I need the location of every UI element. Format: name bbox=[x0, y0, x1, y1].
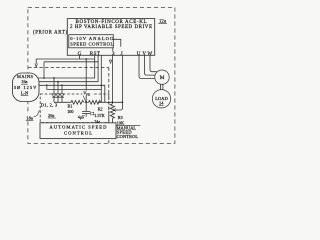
svg-text:4μF: 4μF bbox=[78, 114, 85, 119]
wire: terminal J riser down to wiper bbox=[116, 55, 123, 110]
svg-text:AUTOMATIC SPEED: AUTOMATIC SPEED bbox=[50, 125, 108, 130]
svg-text:3Ø 125V: 3Ø 125V bbox=[14, 85, 37, 90]
capacitor C1 bbox=[82, 102, 90, 116]
junction dots bbox=[43, 58, 123, 103]
svg-text:CONTROL: CONTROL bbox=[64, 131, 92, 136]
svg-text:2 HP VARIABLE SPEED DRIVE: 2 HP VARIABLE SPEED DRIVE bbox=[70, 25, 152, 30]
svg-text:SPEED CONTROL: SPEED CONTROL bbox=[70, 41, 113, 46]
leader from VFD label to node bbox=[83, 96, 86, 102]
svg-text:18a: 18a bbox=[26, 115, 33, 120]
label 18a with leader bbox=[24, 110, 40, 120]
dashed partition (compartment divider) bbox=[28, 68, 109, 144]
wire: mains L2 to terminal S bbox=[39, 55, 99, 81]
potentiometer R3 bbox=[110, 102, 114, 124]
wire: R2 output to pot top node and J riser bbox=[98, 101, 122, 103]
enclosure 12a dashed border bbox=[28, 7, 175, 143]
wire: VFD riser lower bbox=[85, 95, 87, 102]
wire: VFD riser upper bbox=[85, 59, 87, 91]
wire: terminal 3 riser with arrow bbox=[111, 55, 113, 102]
wire: U to motor bbox=[139, 55, 155, 78]
svg-text:(PRIOR ART): (PRIOR ART) bbox=[33, 31, 67, 36]
label 12a bbox=[158, 19, 167, 24]
svg-text:VFD: VFD bbox=[83, 91, 91, 97]
diode D3 bbox=[60, 85, 64, 102]
svg-text:M: M bbox=[160, 75, 165, 81]
svg-text:CONTROL: CONTROL bbox=[117, 134, 139, 139]
shaft motor to load bbox=[161, 84, 163, 90]
wire: L4 into control box bbox=[47, 88, 102, 90]
wire: W to motor bbox=[150, 55, 157, 71]
wire: V to motor bbox=[145, 55, 156, 75]
label D1,2,3 and 20a bbox=[41, 103, 58, 118]
wire: terminal T drop to control bbox=[100, 55, 102, 102]
wire: terminal G down-left with arrow bbox=[36, 55, 94, 64]
wire: mains L1 to terminal R bbox=[39, 55, 95, 78]
resistor R2 bbox=[89, 100, 101, 104]
resistor R1 bbox=[71, 100, 84, 104]
diode D2 bbox=[56, 82, 60, 103]
node label VFD bbox=[82, 91, 92, 97]
wire: mains L3 to terminal T and into control bbox=[39, 85, 105, 102]
terminal J hook to inner box bbox=[114, 39, 121, 47]
svg-text:0-10V ANALOG: 0-10V ANALOG bbox=[70, 36, 114, 41]
motor M bbox=[155, 70, 169, 84]
svg-text:1.57K: 1.57K bbox=[94, 113, 104, 118]
svg-text:R1: R1 bbox=[68, 104, 73, 109]
wire: vertical link L3-L4 bbox=[46, 85, 48, 89]
load 14 bbox=[152, 90, 170, 108]
label MANUAL SPEED CONTROL bbox=[117, 125, 139, 139]
svg-text:20a: 20a bbox=[48, 113, 54, 118]
svg-text:R2: R2 bbox=[98, 106, 103, 111]
automatic control dashed enclosure bbox=[40, 94, 109, 123]
wire: upper horizontal bus to R riser bbox=[44, 61, 98, 63]
svg-text:100: 100 bbox=[67, 109, 73, 114]
diode D1 bbox=[52, 78, 56, 102]
terminal letters G R S T 3 J bbox=[78, 51, 123, 57]
wire: left vertical x=44 bbox=[43, 62, 45, 78]
mains source 16a bbox=[13, 73, 40, 102]
terminal 3 hook to inner box bbox=[112, 48, 114, 51]
drive box U1 bbox=[67, 19, 154, 56]
automatic speed control label box bbox=[40, 123, 116, 139]
svg-text:L-N: L-N bbox=[21, 90, 29, 95]
svg-text:16a: 16a bbox=[21, 79, 27, 84]
wire: rectifier bus bbox=[54, 101, 71, 103]
terminal letters U V W bbox=[137, 51, 153, 57]
inner analog speed control box bbox=[69, 35, 114, 48]
wire: R1 to R2 bbox=[85, 101, 89, 103]
